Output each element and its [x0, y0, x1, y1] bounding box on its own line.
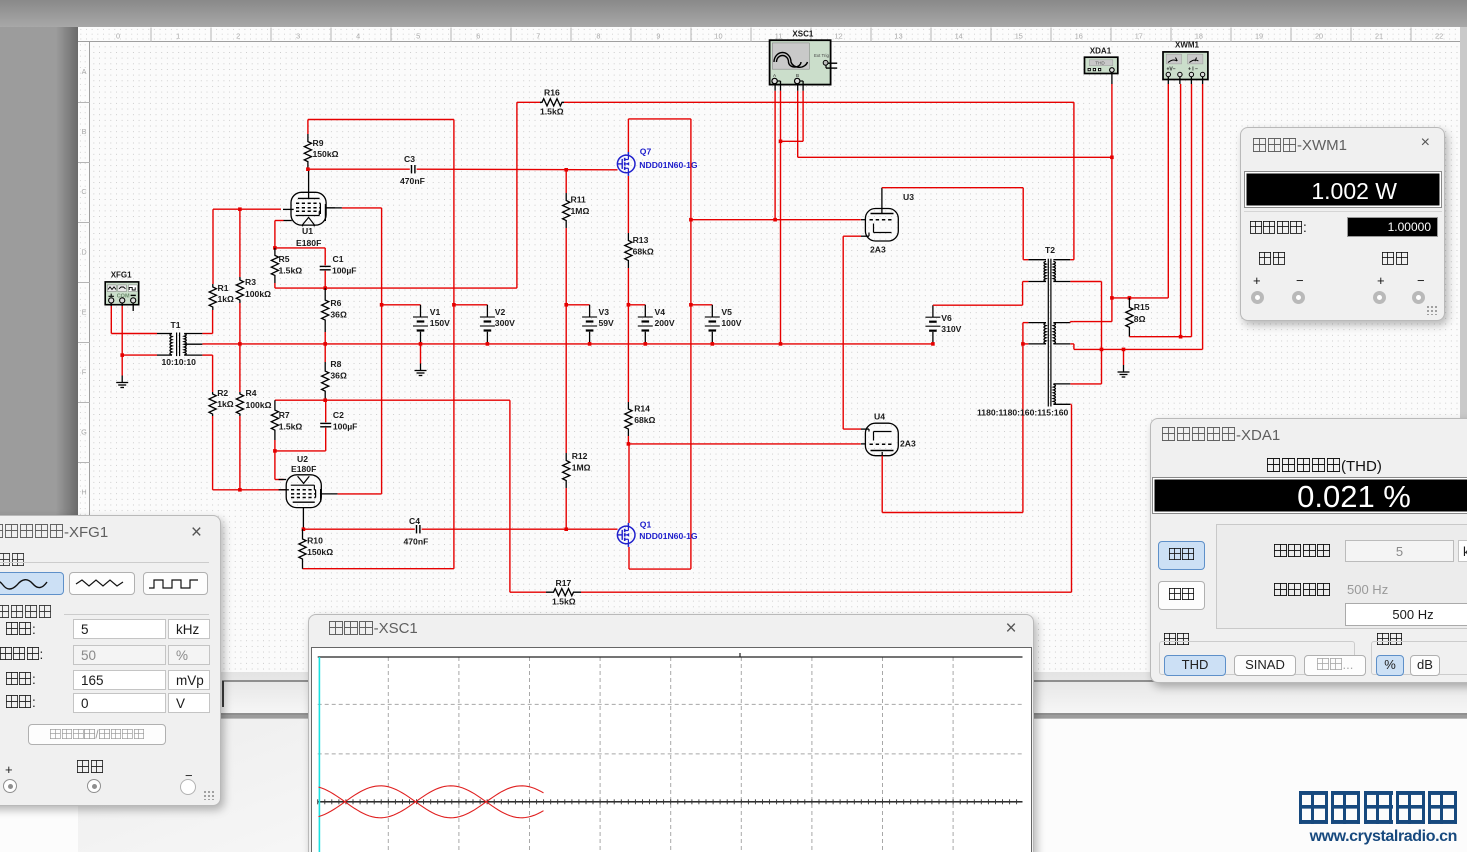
schematic canvas — [78, 27, 1460, 672]
node C2 bottom — [273, 449, 277, 453]
node XDA1 tap — [1110, 156, 1114, 160]
wire — [239, 416, 241, 490]
node T2 sec junction — [1100, 348, 1104, 352]
resistor R17 — [546, 589, 581, 596]
wire — [1023, 322, 1028, 324]
bottom band below canvas — [78, 672, 1467, 714]
wire — [1070, 259, 1074, 261]
node R14 bottom — [627, 442, 631, 446]
wire — [110, 306, 112, 334]
application chrome top bar — [0, 0, 1467, 27]
resistor R5 — [271, 248, 278, 283]
resistor R9 — [304, 134, 311, 169]
wire U4 plate — [881, 456, 883, 513]
wire XWM1 V+ — [1167, 84, 1169, 298]
node U2 plate — [302, 527, 306, 531]
wire — [627, 119, 629, 152]
vacuum tube U2 E180F — [286, 475, 321, 508]
wire — [1023, 259, 1028, 261]
instrument icon XWM1 — [1163, 52, 1208, 80]
wire — [1129, 336, 1191, 338]
wire — [212, 209, 214, 284]
node scope A+ — [773, 218, 777, 222]
oscilloscope graticule and traces — [387, 657, 389, 852]
node R11 top — [564, 168, 568, 172]
wire — [1071, 405, 1073, 593]
right gutter — [1460, 27, 1467, 672]
node V2 feed — [452, 303, 456, 307]
wire — [274, 283, 276, 288]
node rail R3 — [238, 342, 242, 346]
wire XWM1 V- — [1180, 84, 1182, 337]
ruler bands — [78, 27, 1460, 42]
wire U3 grid — [691, 219, 861, 221]
wire — [1074, 321, 1112, 323]
wire — [1022, 188, 1024, 260]
resistor R8 — [322, 362, 329, 400]
wire — [690, 119, 692, 569]
wire — [111, 333, 157, 335]
capacitor C1 — [324, 248, 326, 265]
wire XWM1 I- — [1202, 84, 1204, 349]
wire U3 plate — [882, 187, 1023, 189]
battery V1 — [420, 305, 422, 317]
node scope A- ground — [779, 342, 783, 346]
vacuum tube U1 E180F — [291, 192, 326, 225]
wire — [275, 220, 284, 222]
node R12 bottom — [564, 527, 568, 531]
wire — [627, 176, 629, 233]
wire — [566, 304, 589, 306]
vacuum tube U4 2A3 — [865, 423, 898, 456]
wire U4 grid — [628, 443, 860, 445]
wire — [239, 303, 241, 344]
wire — [1070, 403, 1071, 405]
canvas shadow — [56, 27, 78, 672]
capacitor C2 — [325, 400, 327, 422]
wire — [381, 208, 383, 494]
node R9 bottom — [306, 167, 310, 171]
resistor R1 — [209, 284, 216, 310]
wire top feedback — [308, 119, 454, 121]
wire — [1070, 383, 1101, 385]
wire — [510, 591, 546, 593]
wire — [628, 444, 630, 523]
wire — [307, 120, 309, 135]
wire — [509, 400, 511, 592]
gray app background left — [0, 27, 78, 852]
wire — [132, 306, 134, 311]
node T1 bottom-left junction — [120, 353, 124, 357]
node W2 bottom tee — [1021, 342, 1025, 346]
node R5 top — [273, 246, 277, 250]
node V3 feed — [564, 303, 568, 307]
resistor R4 — [236, 392, 243, 416]
wire — [454, 304, 488, 306]
instrument icon XDA1 — [1085, 57, 1118, 73]
node V3 minus — [588, 342, 592, 346]
wire — [1073, 102, 1075, 259]
wire — [781, 140, 804, 142]
transformer T1 — [170, 334, 172, 356]
ground — [1123, 365, 1125, 372]
wire — [121, 306, 123, 355]
wire — [798, 156, 1112, 158]
transistor Q7 — [617, 155, 635, 173]
node C1 bottom — [323, 286, 327, 290]
node V6 minus — [931, 342, 935, 346]
wire — [1074, 348, 1203, 350]
resistor R15 — [1126, 298, 1133, 337]
instrument icon XSC1 — [770, 40, 831, 84]
battery V5 — [711, 305, 713, 317]
wire plate row — [308, 168, 410, 170]
resistor R12 — [563, 453, 570, 488]
wire — [212, 416, 214, 490]
watermark — [1299, 791, 1457, 846]
node V2 minus — [486, 342, 490, 346]
node V4 minus — [644, 342, 648, 346]
wire — [239, 344, 241, 392]
wire — [627, 436, 629, 444]
wire scope B- — [802, 91, 804, 142]
wire U1 grid — [213, 208, 281, 210]
resistor R11 — [563, 193, 570, 228]
battery V2 — [486, 305, 488, 317]
wire — [581, 591, 1072, 593]
wire U2 plate row — [303, 528, 414, 530]
wire — [121, 355, 123, 375]
wire — [517, 101, 540, 103]
capacitor C3 — [411, 165, 413, 173]
wire — [1022, 282, 1024, 306]
battery V4 — [644, 305, 646, 317]
wire — [564, 101, 1074, 103]
ground — [121, 376, 123, 383]
wire — [122, 354, 157, 356]
wire — [382, 304, 421, 306]
wire — [342, 207, 382, 209]
node output node — [1110, 296, 1114, 300]
wire — [1023, 343, 1028, 345]
wire — [275, 399, 510, 401]
wire — [882, 512, 1023, 514]
resistor R14 — [625, 402, 632, 436]
wire — [1112, 297, 1168, 299]
node rail R6 — [323, 342, 327, 346]
wire — [212, 310, 214, 334]
resistor R3 — [236, 277, 243, 303]
resistor R13 — [625, 233, 632, 268]
wire — [628, 304, 645, 306]
wire — [1023, 281, 1029, 283]
wire — [565, 228, 567, 453]
wire — [1022, 323, 1024, 513]
wire scope A- — [780, 91, 782, 344]
wire — [1070, 281, 1101, 283]
wire — [274, 440, 276, 451]
node R4 bottom — [238, 488, 242, 492]
wire — [691, 304, 712, 306]
wire — [933, 304, 1023, 306]
node R3 top — [238, 207, 242, 211]
wire XDA1 input — [1111, 84, 1113, 322]
transformer T2 — [1047, 259, 1049, 407]
wire — [324, 332, 326, 362]
wire — [1070, 343, 1074, 345]
battery V3 — [589, 305, 591, 317]
node V1 minus — [419, 342, 423, 346]
resistor R7 — [271, 400, 278, 440]
battery V6 — [932, 305, 934, 317]
wire — [239, 209, 241, 277]
vacuum tube U3 2A3 — [865, 209, 898, 242]
resistor R6 — [322, 288, 329, 332]
wire — [1101, 282, 1103, 384]
wire — [1069, 322, 1071, 323]
wire — [274, 451, 276, 480]
wire — [303, 568, 454, 570]
node R15 top — [1128, 296, 1132, 300]
wire — [453, 120, 455, 569]
resistor R2 — [209, 392, 216, 416]
wire cathode bottom — [275, 287, 517, 289]
wire — [843, 428, 861, 430]
wire U3 cathode — [843, 235, 861, 237]
wire — [202, 333, 212, 335]
node V4 feed — [627, 303, 631, 307]
wire — [565, 170, 567, 193]
wire — [338, 493, 382, 495]
wire — [212, 355, 214, 392]
node V5 feed — [689, 303, 693, 307]
wire XWM1 I+ — [1191, 84, 1193, 337]
resize grips and corner mark — [203, 790, 215, 800]
ground — [420, 364, 422, 371]
wire — [275, 247, 325, 249]
wire T1 center tap rail — [202, 343, 933, 345]
wire — [325, 207, 342, 209]
node V1 feed — [380, 303, 384, 307]
node R8 bottom — [323, 398, 327, 402]
wire — [627, 268, 629, 402]
resistor R10 — [299, 529, 306, 569]
wire — [275, 450, 326, 452]
node U3 grid wire — [689, 218, 693, 222]
wire scope A+ — [774, 91, 776, 220]
wire — [629, 568, 691, 570]
capacitor C4 — [416, 525, 418, 533]
wire — [628, 547, 630, 569]
node V- tap — [1179, 335, 1183, 339]
wire — [516, 102, 518, 288]
instrument icon XFG1 — [105, 282, 139, 305]
node ground tap — [1122, 348, 1126, 352]
node V5 minus — [711, 342, 715, 346]
wire — [202, 354, 212, 356]
wire U2 grid — [213, 489, 286, 491]
wire — [565, 488, 567, 529]
transistor Q1 — [617, 526, 635, 544]
resistor R16 — [540, 99, 564, 106]
wire — [628, 118, 691, 120]
wire scope B+ — [797, 91, 799, 158]
wire — [842, 236, 844, 429]
wire — [420, 344, 422, 364]
node A- B- tie — [779, 140, 783, 144]
wire — [1123, 349, 1125, 365]
